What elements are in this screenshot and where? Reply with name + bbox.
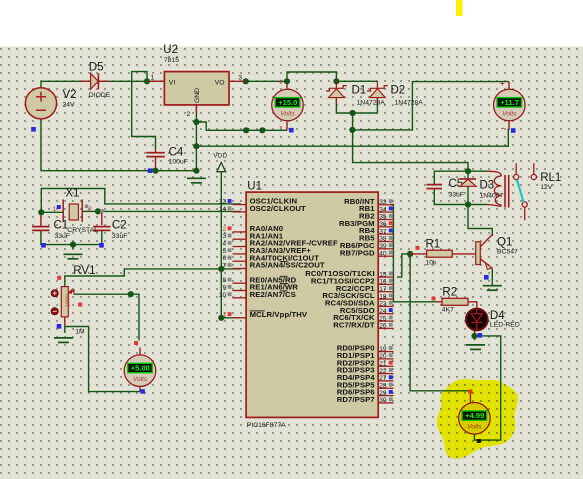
handle X1 pin2b	[100, 209, 104, 213]
wire pin33 to R2	[390, 205, 436, 302]
wire C4 bottom lead	[155, 157, 157, 171]
ground below D4	[466, 345, 485, 350]
svg-text:38: 38	[379, 236, 387, 243]
zener diode D2 1N4728A	[367, 81, 388, 104]
junction K	[152, 168, 158, 174]
svg-text:RL1: RL1	[540, 172, 561, 184]
svg-text:37: 37	[379, 228, 387, 235]
svg-text:PIC16F877A: PIC16F877A	[247, 422, 286, 429]
wire D3 bottom lead	[467, 187, 469, 205]
pin 9 U1 left stub	[223, 285, 247, 292]
junction J	[193, 143, 199, 149]
pin 33 U1 right stub	[378, 199, 393, 206]
svg-text:22: 22	[379, 368, 387, 375]
svg-text:33: 33	[379, 199, 387, 206]
svg-text:20: 20	[379, 353, 387, 360]
pin 27 U1 right stub	[378, 375, 393, 382]
wire crystal pin1 lead	[41, 211, 62, 213]
junction Q	[95, 208, 101, 214]
pin 16 U1 right stub	[378, 279, 393, 286]
wire VDD rail down	[220, 172, 222, 318]
crystal X1	[63, 200, 82, 223]
svg-text:LED-RED: LED-RED	[490, 322, 520, 329]
wire crystal pin2 lead	[83, 210, 98, 212]
svg-text:GND: GND	[194, 88, 201, 103]
svg-text:RV1: RV1	[73, 265, 95, 277]
pin 3 U1 left stub	[223, 233, 247, 240]
wire C1 top lead	[40, 212, 42, 226]
handle X1 pin1	[57, 205, 61, 209]
svg-text:+: +	[279, 78, 284, 87]
svg-text:RB7/PGD: RB7/PGD	[340, 248, 375, 257]
svg-text:2: 2	[223, 226, 227, 233]
yellow highlighter blob	[437, 379, 518, 458]
white top strip	[0, 0, 583, 46]
handle RV1 bottom	[57, 324, 62, 329]
svg-text:15: 15	[379, 271, 387, 278]
svg-text:5: 5	[223, 248, 227, 255]
handle vm1	[289, 128, 294, 133]
wire to ground sym C1C2	[72, 245, 74, 250]
zener diode D1 1N4728A	[326, 81, 347, 104]
wire RV1 wiper	[74, 293, 131, 295]
svg-text:28: 28	[379, 383, 387, 390]
svg-text:RD7/PSP7: RD7/PSP7	[337, 395, 375, 404]
pin 23 U1 right stub	[378, 301, 393, 308]
svg-text:25: 25	[379, 315, 387, 322]
svg-text:9: 9	[223, 285, 227, 292]
pin 34 U1 right stub	[378, 206, 393, 213]
svg-text:D4: D4	[490, 310, 505, 322]
handle C4	[148, 168, 153, 173]
junction V	[407, 251, 413, 257]
pin 24 U1 right stub	[378, 308, 393, 315]
svg-text:39: 39	[379, 243, 387, 250]
LED D4	[466, 309, 488, 331]
svg-text:C4: C4	[169, 146, 184, 158]
svg-text:BC547: BC547	[497, 249, 518, 256]
wire Q1 emitter down	[491, 268, 493, 281]
junction G	[243, 127, 249, 133]
svg-text:10: 10	[219, 292, 227, 299]
wire ground rail to voltmeter2 minus	[196, 129, 508, 147]
pin 30 U1 right stub	[378, 397, 393, 404]
capacitor C2	[93, 227, 110, 231]
voltmeter +15.0 Volts	[272, 89, 304, 121]
svg-text:RC7/RX/DT: RC7/RX/DT	[333, 321, 375, 330]
svg-text:4: 4	[223, 241, 227, 248]
junction R	[70, 242, 76, 248]
wire D4 bottom lead	[474, 331, 476, 336]
svg-text:+11.7: +11.7	[500, 98, 519, 107]
ground below RV1	[54, 338, 73, 343]
pin 18 U1 right stub	[378, 293, 393, 300]
svg-text:8: 8	[223, 277, 227, 284]
capacitor C1	[32, 227, 49, 231]
handle vm4 plus	[468, 390, 472, 394]
svg-text:-: -	[501, 123, 504, 133]
pin 38 U1 right stub	[378, 236, 393, 243]
svg-text:D2: D2	[391, 85, 406, 97]
svg-text:23: 23	[379, 301, 387, 308]
svg-text:34: 34	[379, 206, 387, 213]
svg-text:29: 29	[379, 390, 387, 397]
pin 40 U1 right stub	[378, 250, 393, 257]
pin 26 U1 right stub	[378, 323, 393, 330]
junction N	[465, 201, 471, 207]
resistor R1 10k	[410, 250, 476, 257]
svg-text:R1: R1	[426, 238, 441, 250]
svg-text:V2: V2	[63, 89, 77, 101]
wire to pin MCLR	[221, 317, 241, 319]
wire to voltmeter3 plus	[131, 294, 139, 340]
wire vm3 minus lead	[139, 386, 141, 392]
wire pin15 to R1 node	[397, 254, 410, 277]
overline marks	[250, 262, 289, 311]
pin 22 U1 right stub	[378, 368, 393, 375]
pin 13 U1 left stub	[219, 199, 246, 206]
junction D	[333, 78, 339, 84]
handle R2	[432, 297, 436, 301]
voltmeter +4.99 Volts	[459, 403, 491, 435]
handle C2	[99, 243, 104, 248]
junction S	[218, 266, 224, 272]
pin 20 U1 right stub	[378, 353, 393, 360]
wire RV1 top to pin7 node	[65, 269, 222, 287]
svg-text:U2: U2	[163, 44, 178, 56]
pin 8 U1 left stub	[223, 277, 247, 284]
wire RV1 bottom to voltmeter3 minus	[65, 327, 140, 392]
pin 17 U1 right stub	[378, 286, 393, 293]
wire to ground sym U2	[195, 146, 197, 173]
svg-text:13: 13	[219, 199, 227, 206]
svg-text:1: 1	[53, 206, 57, 213]
pin 5 U1 left stub	[223, 248, 247, 255]
wire to C5 top	[434, 171, 468, 184]
svg-text:27: 27	[379, 375, 387, 382]
svg-text:6: 6	[223, 255, 227, 262]
svg-text:1: 1	[151, 75, 155, 82]
wire to ground sym D4	[474, 336, 476, 340]
svg-text:D3: D3	[480, 179, 495, 191]
svg-text:C1: C1	[54, 220, 69, 232]
svg-text:4K7: 4K7	[442, 307, 454, 314]
wire vm2 minus lead	[508, 121, 510, 130]
wire C5 bottom to node	[434, 189, 468, 205]
svg-text:24V: 24V	[63, 101, 76, 108]
resistor R2 4K7	[436, 298, 477, 309]
wire vm2 plus lead	[508, 82, 510, 90]
wire C1 C2 bottoms	[41, 231, 102, 245]
svg-text:2: 2	[89, 206, 93, 213]
wire vm1 plus lead	[286, 81, 288, 88]
svg-text:7: 7	[223, 263, 227, 270]
svg-text:U1: U1	[247, 181, 262, 193]
pin 4 U1 left stub	[223, 241, 247, 248]
ground below Q1 emitter	[483, 286, 502, 291]
junction H	[259, 127, 265, 133]
wire voltmeter1 to D1 top	[287, 72, 336, 81]
svg-text:40: 40	[379, 250, 387, 257]
wire vm1 minus lead	[286, 122, 288, 131]
svg-text:2: 2	[187, 111, 191, 118]
svg-text:D1: D1	[352, 85, 367, 97]
wire zener node to voltmeter2 plus	[352, 82, 509, 130]
svg-text:36: 36	[379, 221, 387, 228]
svg-text:3: 3	[238, 75, 242, 82]
svg-text:DIODE: DIODE	[89, 92, 111, 99]
wire crystal loop to pin13	[41, 189, 241, 213]
svg-text:D5: D5	[89, 62, 104, 74]
voltmeter +5.00 Volts	[124, 355, 156, 387]
junction W	[471, 333, 477, 339]
wire detour to C4	[132, 72, 156, 149]
junction U	[128, 291, 134, 297]
junction C	[284, 78, 290, 84]
svg-text:100uF: 100uF	[169, 159, 188, 166]
voltmeter +11.7 Volts	[494, 89, 526, 121]
handle RV1 top	[57, 276, 61, 280]
svg-text:18: 18	[379, 293, 387, 300]
wire D1 top to D2 top	[336, 80, 377, 82]
handle vm4 minus	[477, 439, 481, 443]
pin 14 U1 left stub	[219, 206, 246, 213]
junction F	[193, 119, 199, 125]
wire vm4 plus lead	[469, 392, 471, 403]
svg-text:VDD: VDD	[213, 153, 227, 160]
pin 6 U1 left stub	[223, 255, 247, 262]
relay RL1 coil and contacts	[487, 163, 536, 220]
svg-text:+: +	[500, 79, 505, 88]
capacitor C4	[146, 149, 165, 157]
ground below C1 C2	[64, 254, 83, 258]
pin 1 U1 left stub	[223, 312, 247, 319]
junction L	[193, 168, 199, 174]
capacitor C5	[427, 185, 443, 189]
pin 21 U1 right stub	[378, 361, 393, 368]
svg-text:26: 26	[379, 323, 387, 330]
wire C2 top lead	[101, 211, 103, 225]
power terminal VDD	[217, 163, 226, 172]
svg-text:1N4728A: 1N4728A	[395, 99, 424, 106]
handle RV1 wiper	[78, 303, 82, 307]
pin 25 U1 right stub	[378, 315, 393, 322]
pin 35 U1 right stub	[378, 214, 393, 221]
diode D5	[80, 73, 109, 89]
wire crystal to pin14	[98, 210, 241, 212]
wire relay node to Q1 collector	[468, 205, 492, 237]
pin 28 U1 right stub	[378, 383, 393, 390]
svg-text:19: 19	[379, 346, 387, 353]
svg-text:Volts: Volts	[133, 376, 148, 383]
pin 10 U1 left stub	[219, 292, 246, 299]
pin 37 U1 right stub	[378, 228, 393, 235]
svg-text:7815: 7815	[164, 57, 179, 64]
wire ground rail left	[41, 119, 196, 171]
svg-text:100%: 100%	[65, 293, 71, 307]
regulator U2 7815	[148, 72, 246, 114]
handle vm2	[511, 128, 516, 133]
handle R1	[416, 246, 420, 250]
relay switch blade	[517, 180, 524, 202]
wire R1 node to voltmeter4 plus	[410, 254, 470, 391]
svg-text:Volts: Volts	[502, 110, 517, 117]
svg-text:Volts: Volts	[280, 110, 295, 117]
svg-text:1N4728A: 1N4728A	[357, 99, 386, 106]
wire D3 top lead	[467, 171, 469, 179]
svg-text:C2: C2	[112, 220, 127, 232]
wire RV1 bottom lead	[64, 317, 66, 327]
potentiometer RV1 1M	[51, 287, 74, 317]
svg-text:16: 16	[379, 279, 387, 286]
junction B	[243, 78, 249, 84]
svg-text:33uF: 33uF	[112, 233, 128, 240]
handle C1	[41, 243, 46, 248]
svg-text:+15.0: +15.0	[278, 98, 297, 107]
battery V2	[25, 88, 56, 119]
wire to pin7	[221, 268, 241, 270]
pin 7 U1 left stub	[223, 263, 247, 270]
svg-text:X1: X1	[65, 188, 79, 200]
svg-text:RE2/AN7/CS: RE2/AN7/CS	[250, 290, 296, 299]
microcontroller U1 PIC16F877A body	[246, 192, 378, 417]
svg-text:-: -	[280, 122, 283, 132]
wire to ground sym Q1	[491, 281, 493, 285]
svg-text:17: 17	[379, 286, 387, 293]
junction A	[144, 78, 150, 84]
wire to ground sym RV1	[64, 327, 66, 334]
wire U2 gnd to voltmeter1 minus	[196, 122, 287, 130]
svg-text:1M: 1M	[75, 328, 85, 335]
svg-text:24: 24	[379, 308, 387, 315]
junction M	[465, 168, 471, 174]
svg-text:30: 30	[379, 397, 387, 404]
svg-text:3: 3	[223, 233, 227, 240]
yellow highlighter mark top	[456, 0, 463, 16]
pin 2 U1 left stub	[223, 226, 247, 233]
wire U2 GND pin down	[195, 105, 197, 146]
svg-text:OSC2/CLKOUT: OSC2/CLKOUT	[250, 204, 306, 213]
svg-text:14: 14	[219, 206, 227, 213]
junction I	[349, 127, 355, 133]
wire zener node to relay supply	[353, 113, 468, 171]
handle X1 pin2a	[85, 205, 89, 209]
svg-text:VO: VO	[215, 79, 225, 86]
ground below U2	[187, 178, 206, 183]
wire relay coil bottom	[468, 204, 487, 206]
svg-text:33uF: 33uF	[55, 233, 71, 240]
wire vm3 plus lead	[139, 348, 141, 356]
svg-text:21: 21	[379, 361, 387, 368]
svg-text:12V: 12V	[540, 184, 553, 191]
wire relay coil top	[468, 170, 487, 172]
junction E	[350, 110, 356, 116]
pin 15 U1 right stub	[378, 271, 393, 278]
pin 19 U1 right stub	[378, 346, 393, 353]
junction P	[38, 209, 44, 215]
svg-text:Q1: Q1	[497, 236, 512, 248]
transistor Q1 BC547	[476, 235, 493, 270]
handle V2	[31, 127, 36, 132]
svg-text:1: 1	[223, 312, 227, 319]
junction T	[218, 315, 224, 321]
svg-text:33uF: 33uF	[449, 192, 465, 199]
pin 39 U1 right stub	[378, 243, 393, 250]
wire voltmeter4 minus to D4 node	[474, 336, 500, 440]
svg-text:35: 35	[379, 214, 387, 221]
diode D3 1N4007	[460, 179, 476, 186]
handle vm3	[140, 389, 145, 394]
wire V2 to D5 to U2 VI	[41, 81, 164, 87]
handle vm3 plus	[134, 341, 138, 345]
wire D1 D2 bottoms	[336, 98, 377, 113]
svg-text:+5.00: +5.00	[131, 364, 150, 373]
handle D4	[478, 333, 483, 338]
pin 29 U1 right stub	[378, 390, 393, 397]
svg-text:R2: R2	[442, 286, 457, 298]
svg-text:VI: VI	[169, 79, 176, 86]
svg-text:10k: 10k	[426, 259, 438, 266]
handle Q1	[484, 275, 489, 280]
pin 36 U1 right stub	[378, 221, 393, 228]
wire U2 VO to voltmeter1	[246, 80, 287, 82]
